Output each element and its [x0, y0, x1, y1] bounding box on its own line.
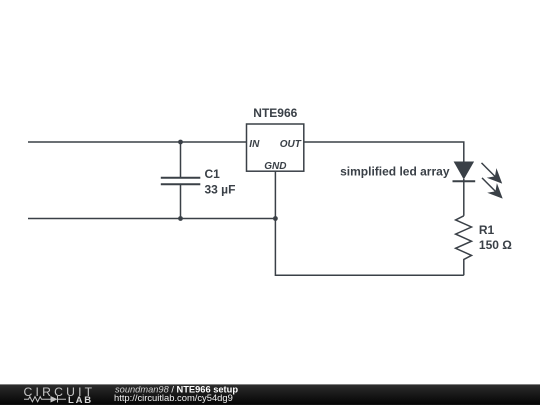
svg-text:simplified led array: simplified led array: [340, 165, 450, 179]
svg-text:IN: IN: [249, 139, 260, 150]
svg-text:C1: C1: [205, 167, 221, 181]
svg-text:NTE966: NTE966: [253, 106, 297, 120]
svg-text:33 µF: 33 µF: [205, 183, 236, 197]
svg-text:GND: GND: [264, 161, 286, 172]
svg-text:150 Ω: 150 Ω: [479, 238, 512, 252]
svg-text:OUT: OUT: [280, 139, 302, 150]
svg-text:http://circuitlab.com/cy54dg9: http://circuitlab.com/cy54dg9: [114, 392, 233, 403]
svg-text:R1: R1: [479, 223, 495, 237]
svg-text:LAB: LAB: [68, 395, 93, 405]
